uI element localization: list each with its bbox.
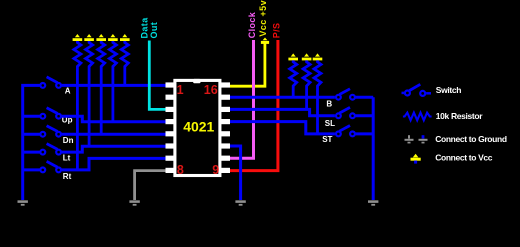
pin stubs left (1-8) [166,82,176,173]
gray wire pin 8 to ground [135,171,166,200]
wire pin 13 to switch ST [230,122,335,134]
svg-text:B: B [326,99,332,108]
svg-text:Dn: Dn [63,136,74,145]
Vcc arrow glyph [261,41,269,44]
resistor R5 (pull-up, A line) [120,34,130,85]
svg-text:1: 1 [177,83,184,97]
ground (pin 11) [235,202,245,205]
wire A row to pin 1 [62,84,166,87]
wire B right to rail [356,96,374,99]
pin stubs right (16-9) [219,82,231,173]
svg-text:Connect to Vcc: Connect to Vcc [435,153,493,163]
Data Out label [140,17,159,39]
svg-text:P/S: P/S [272,23,282,39]
switch ST [336,126,355,137]
wire pin 15 to switch B [230,96,335,99]
IC U1 4021 [166,79,231,177]
switch Lt [40,144,61,155]
svg-text:ST: ST [322,135,332,144]
svg-text:SL: SL [325,119,335,128]
legend ground icon 2 [419,135,428,142]
resistor R7 (pull-up, SL line) [302,53,312,109]
svg-text:Vcc +5v: Vcc +5v [258,0,268,37]
wire pin 14 to switch SL [230,109,335,115]
chip body [175,80,220,175]
legend switch icon [402,84,432,96]
magenta Clock wire to pin 10 [230,40,254,158]
wire Dn row to pin 5 [62,133,166,136]
wire branch Dn [23,133,40,136]
svg-text:A: A [65,87,71,96]
switch Up [40,108,61,119]
wire SL right to rail [356,114,374,117]
resistor R3 (pull-up, Dn line) [96,34,106,134]
svg-text:9: 9 [212,163,219,177]
yellow Vcc wire pin 16 [230,43,265,87]
legend resistor icon [403,113,432,121]
svg-text:Out: Out [149,22,159,39]
wire branch Lt [23,151,40,154]
resistor R2 (pull-up, Lt line) [84,34,94,146]
switch Rt [40,161,61,172]
wire branch Rt [23,168,40,171]
wire Data Out (pin 3) [149,41,166,110]
wire Lt row to pin 6 [62,146,166,152]
ground (left rail) [18,202,28,205]
svg-text:16: 16 [204,83,218,97]
svg-text:Clock: Clock [247,11,257,38]
red P/S wire to pin 9 [230,40,278,171]
svg-text:Switch: Switch [436,85,461,95]
wire branch Up [23,115,40,118]
switch SL [336,107,355,118]
svg-text:Rt: Rt [63,172,72,181]
wire Rt row to pin 7 [62,158,166,170]
ground (right rail) [368,202,378,205]
resistor R6 (pull-up, B line) [288,53,298,97]
svg-text:Connect to Ground: Connect to Ground [435,134,507,144]
wire Up row to pin 4 [62,116,166,122]
switch B [336,89,355,100]
switch A [40,77,61,88]
notch [193,79,200,83]
ground rail left [23,85,40,200]
svg-text:Lt: Lt [63,153,71,162]
svg-text:10k Resistor: 10k Resistor [436,111,483,121]
svg-text:4021: 4021 [183,118,214,134]
ground (pin 8) [129,202,139,205]
resistor R1 (pull-up, Rt line) [73,34,83,170]
resistor R4 (pull-up, Up line) [108,34,118,122]
resistor R8 (pull-up, ST line) [313,53,323,133]
legend Vcc icon [411,154,421,164]
blue pin 11 to ground [230,146,241,200]
wire ST right to rail [356,132,374,135]
legend ground icon 1 [405,135,414,142]
switch Dn [40,126,61,137]
svg-text:8: 8 [177,163,184,177]
ground rail right [372,97,375,200]
